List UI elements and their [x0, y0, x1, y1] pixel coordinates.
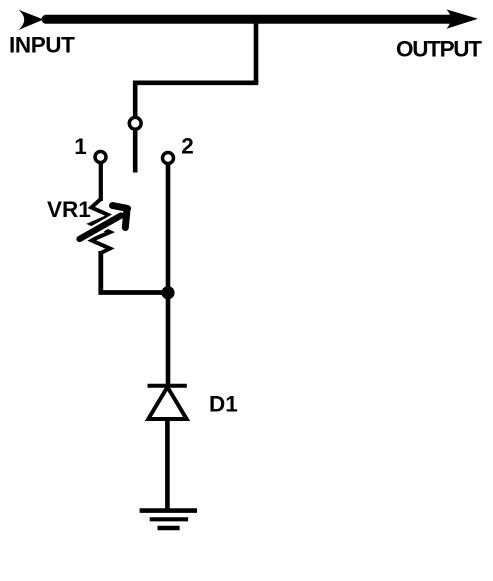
- switch contact 2 circle: [163, 153, 174, 164]
- wire: VR1 bottom to junction (L bend): [101, 251, 168, 293]
- wire: contact 1 down to VR1: [99, 164, 103, 202]
- ground symbol bar 2: [150, 517, 188, 521]
- svg-text:2: 2: [181, 133, 194, 158]
- VR1 adjustment arrow shaft: [80, 216, 122, 240]
- svg-text:INPUT: INPUT: [9, 33, 75, 58]
- svg-text:VR1: VR1: [47, 197, 91, 222]
- wire: down to switch pole circle: [133, 81, 138, 118]
- switch arm (open): [133, 131, 138, 173]
- wire: top horizontal bus INPUT to OUTPUT: [46, 15, 456, 24]
- svg-text:D1: D1: [209, 392, 238, 417]
- diode D1 triangle: [148, 387, 186, 419]
- wire: riser from top bus down: [254, 21, 259, 83]
- wire: horizontal to switch pole: [133, 81, 258, 86]
- ground symbol bar 1: [140, 508, 197, 513]
- wire: diode to ground: [165, 420, 170, 510]
- wire: contact 2 down through junction to diode: [166, 165, 171, 385]
- switch pole terminal circle: [129, 117, 141, 129]
- ground symbol bar 3: [158, 526, 180, 531]
- VR1 adjustment arrow head: [113, 206, 128, 209]
- junction node dot: [161, 286, 174, 299]
- diode D1 cathode bar: [148, 384, 187, 388]
- input arrowhead: [19, 10, 44, 30]
- resistor VR1 zigzag: [91, 199, 110, 253]
- switch contact 1 circle: [95, 152, 106, 163]
- svg-text:OUTPUT: OUTPUT: [396, 37, 482, 62]
- output arrowhead: [447, 9, 479, 28]
- svg-text:1: 1: [74, 134, 87, 159]
